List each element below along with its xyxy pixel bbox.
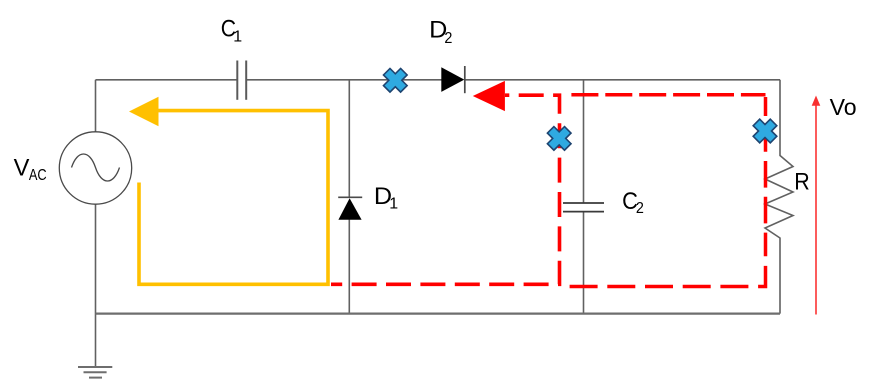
svg-text:1: 1 xyxy=(233,28,242,45)
svg-text:AC: AC xyxy=(29,167,47,184)
svg-text:2: 2 xyxy=(636,200,644,217)
svg-text:R: R xyxy=(794,169,810,196)
svg-text:2: 2 xyxy=(444,30,452,47)
svg-text:V: V xyxy=(14,155,30,182)
svg-text:1: 1 xyxy=(389,195,398,212)
svg-text:Vo: Vo xyxy=(830,94,857,120)
